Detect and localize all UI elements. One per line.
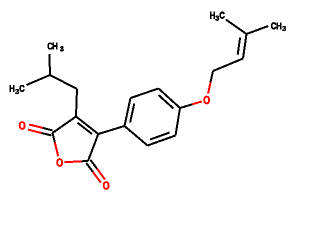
bond C2-C3 ring (53, 117, 77, 134)
bond C-CH3 prenyl (247, 26, 269, 34)
atom O1 ring oxygen (56, 158, 62, 166)
bond phenyl C1-C2 double (125, 98, 131, 126)
bond C3=C4 ring double (76, 117, 98, 135)
bond phenyl C4-C5 (176, 108, 181, 136)
label H3C isobutyl methyl (10, 85, 15, 92)
bond phenyl C3-C4 double (159, 89, 181, 109)
bond C5-O1 ring, red near O (82, 160, 88, 162)
bond C4-phenyl ipso (98, 126, 124, 134)
atom O ether oxygen (203, 96, 209, 104)
bond O-CH2 prenyl, red near O (211, 71, 214, 82)
bond phenyl C6-C1 (125, 126, 148, 146)
label CH3 prenyl methyl (271, 23, 276, 30)
atom O bottom carbonyl oxygen (103, 181, 109, 189)
bond CH-CH2 isobutyl (50, 75, 77, 89)
bond CH3-CH isobutyl (48, 54, 51, 75)
bond C-H3C prenyl (226, 20, 247, 35)
label CH3 isobutyl methyl (48, 43, 53, 50)
bond phenyl C5-C6 double (148, 136, 176, 146)
bond CH2-CH prenyl (213, 59, 243, 72)
bond CH-H3C isobutyl (27, 75, 51, 85)
bond CH2-C3 (76, 89, 77, 117)
bond CH=C prenyl double (243, 34, 247, 59)
bond phenyl-O ether, red near O (180, 104, 192, 108)
bond C4-C5 ring (88, 134, 98, 161)
bond phenyl C2-C3 (131, 89, 159, 99)
bond C2=O left carbonyl double (43, 128, 53, 130)
white background (0, 0, 300, 201)
bond C5=O bottom carbonyl double (86, 163, 93, 172)
bond O1-C2 ring, red near O (53, 133, 55, 142)
label H3C prenyl methyl (210, 12, 215, 19)
atom O left carbonyl oxygen (19, 121, 25, 129)
chemical structure: 3-isobutyl-4-[4-(3-methyl-2-butenyloxy)phenyl]furan-2,5-dione (0, 0, 300, 201)
